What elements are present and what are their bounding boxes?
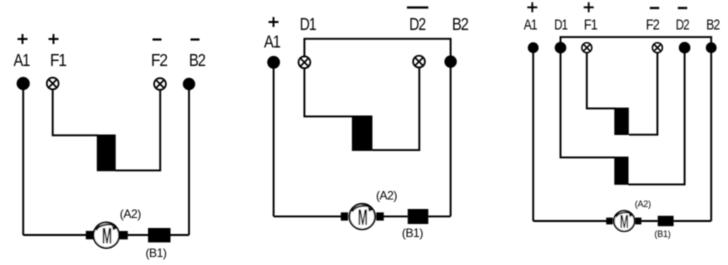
terminal F1 (circle-X): [582, 43, 592, 53]
svg-text:D1: D1: [554, 17, 568, 33]
wire F1 down and right to rheostat: [53, 89, 98, 135]
svg-text:(A2): (A2): [635, 199, 651, 209]
starting resistor block (B1): [148, 228, 171, 242]
terminal D1 (circle-X): [299, 56, 311, 68]
wire D1 down and right to resistor: [304, 68, 353, 117]
starting resistor block (B1): [408, 209, 429, 224]
terminal F2 (circle-X): [154, 78, 166, 90]
svg-text:B2: B2: [452, 14, 468, 34]
svg-text:A1: A1: [264, 32, 280, 52]
wire A1 down: [22, 89, 24, 235]
wire rheostat to F2: [116, 89, 161, 170]
svg-text:A1: A1: [14, 50, 30, 70]
svg-text:F2: F2: [646, 17, 660, 33]
terminal B2 (filled): [183, 78, 195, 90]
svg-text:B2: B2: [189, 50, 205, 70]
wire B2 down: [188, 90, 190, 236]
wire B2 down: [450, 67, 452, 216]
wire series resistor to D2: [628, 53, 684, 184]
wire B1 to B2 corner: [171, 234, 190, 236]
svg-text:M: M: [102, 224, 112, 249]
field rheostat block (upper): [614, 108, 629, 135]
terminal D1 (filled): [555, 42, 567, 54]
terminal B2 (filled): [706, 42, 717, 53]
plus sign over F1: [584, 2, 594, 12]
minus sign over F2: [650, 7, 659, 9]
wire D1 down and right to series resistor: [561, 53, 616, 157]
terminal B2 (filled): [444, 55, 456, 67]
motor M (armature): [341, 204, 384, 230]
wire motor to starting resistor B1: [641, 220, 657, 222]
wire A1 down: [532, 53, 534, 221]
terminal A1 (filled): [17, 77, 30, 90]
svg-text:F1: F1: [584, 17, 598, 33]
terminal D2 (circle-X): [413, 56, 425, 68]
svg-text:(B1): (B1): [402, 226, 423, 240]
jumper wire D1 to B2: [304, 39, 450, 57]
wire B2 down: [710, 53, 712, 221]
terminal A1 (filled): [528, 42, 539, 53]
svg-text:M: M: [358, 205, 368, 230]
series resistor block (lower): [614, 157, 628, 185]
wire B1 to B2 corner: [674, 220, 712, 222]
wire F1 down and right to field rheostat: [587, 53, 616, 109]
series resistor block: [352, 116, 373, 151]
terminal D2 (filled): [679, 42, 691, 54]
svg-text:(B1): (B1): [654, 229, 670, 239]
svg-text:D2: D2: [409, 14, 425, 34]
minus sign over D2: [678, 7, 687, 9]
minus sign over F2: [153, 38, 162, 40]
svg-text:D1: D1: [300, 14, 316, 34]
svg-text:(B1): (B1): [145, 246, 166, 260]
wire motor to starting resistor B1: [127, 234, 148, 236]
svg-text:F2: F2: [151, 50, 167, 70]
wire A1 down: [273, 68, 275, 216]
jumper wire D1 to B2: [561, 37, 712, 43]
wire motor to starting resistor B1: [383, 215, 407, 217]
plus sign over A1: [527, 2, 537, 12]
svg-text:(A2): (A2): [120, 207, 141, 221]
svg-text:M: M: [620, 212, 629, 232]
starting resistor block (B1): [658, 216, 674, 226]
minus sign over B2: [191, 38, 200, 40]
bottom wire left: [533, 220, 607, 222]
bottom wire left: [23, 234, 87, 236]
bottom wire left: [274, 215, 342, 217]
field rheostat block (R1): [97, 135, 116, 172]
terminal F2 (circle-X): [652, 43, 662, 53]
plus sign over A1: [269, 17, 279, 27]
wire B1 to B2 corner: [428, 215, 450, 217]
svg-text:F1: F1: [50, 50, 66, 70]
wire resistor to D2: [372, 67, 419, 150]
terminal F1 (circle-X): [47, 78, 59, 90]
svg-text:(A2): (A2): [376, 189, 397, 203]
plus sign over F1: [49, 34, 59, 44]
svg-text:B2: B2: [706, 17, 720, 33]
plus sign over A1: [18, 34, 28, 44]
svg-text:A1: A1: [524, 17, 538, 33]
svg-text:D2: D2: [676, 17, 690, 33]
wire rheostat to F2: [629, 53, 657, 135]
motor M (armature): [606, 211, 641, 232]
motor M (armature): [86, 222, 128, 248]
terminal A1 (filled): [267, 56, 280, 69]
